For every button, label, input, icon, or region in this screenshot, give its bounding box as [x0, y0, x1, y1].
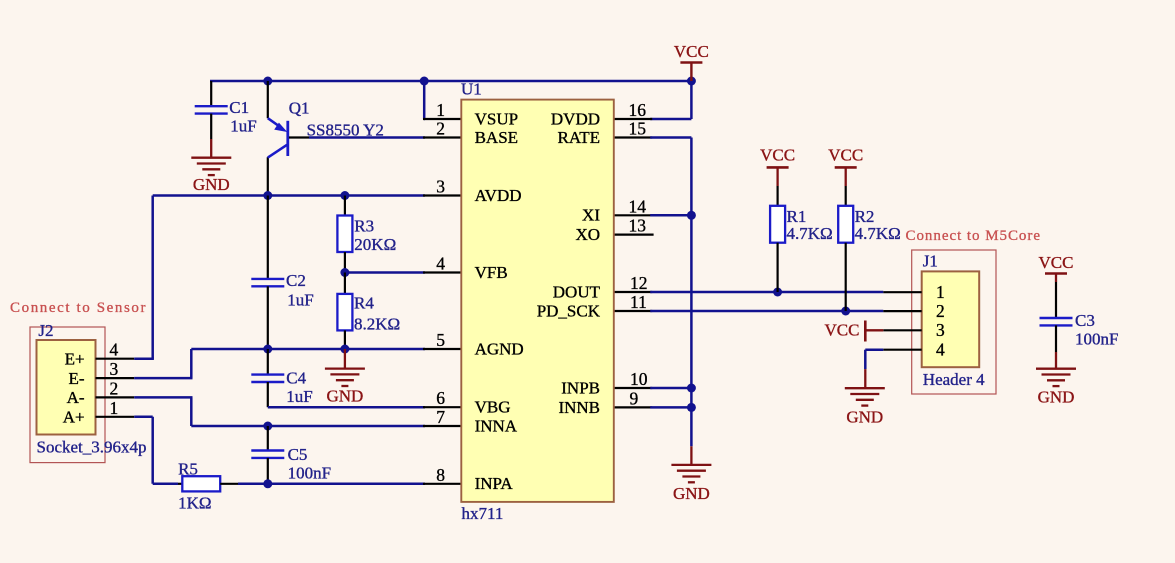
svg-text:15: 15	[629, 119, 647, 139]
pin 4 VFB stub	[423, 254, 461, 274]
svg-text:Socket_3.96x4p: Socket_3.96x4p	[37, 438, 147, 457]
svg-text:C1: C1	[229, 98, 249, 117]
svg-text:hx711: hx711	[462, 504, 504, 523]
wire VFB net row	[345, 271, 425, 274]
power VCC above R2	[828, 146, 863, 187]
pin 10 INPB stub	[614, 369, 652, 389]
svg-text:5: 5	[436, 330, 445, 350]
svg-text:13: 13	[629, 216, 647, 236]
svg-text:1uF: 1uF	[230, 117, 256, 136]
wire INNB to rail	[650, 406, 691, 409]
power VCC (top, net VSUP)	[674, 42, 709, 81]
svg-text:VSUP: VSUP	[475, 109, 518, 128]
svg-text:Q1: Q1	[289, 99, 310, 118]
node junction R3/R4 on VFB	[340, 268, 349, 277]
wire J2 pin4 E+ to AVDD	[134, 357, 154, 360]
svg-text:INNA: INNA	[475, 416, 518, 435]
svg-text:14: 14	[629, 196, 647, 216]
svg-text:GND: GND	[1038, 387, 1075, 406]
svg-text:PD_SCK: PD_SCK	[537, 301, 601, 320]
svg-text:12: 12	[630, 273, 648, 293]
svg-text:C5: C5	[288, 445, 308, 464]
svg-text:C2: C2	[286, 271, 306, 290]
capacitor C5 100nF	[251, 426, 331, 484]
svg-text:11: 11	[630, 292, 647, 312]
wire J2 pin1 A+ to R5	[134, 417, 153, 484]
pin 12 DOUT stub	[614, 273, 652, 293]
wire XI to rail	[650, 214, 691, 217]
transistor Q1 SS8550 (PNP)	[268, 81, 384, 196]
resistor R3 20K	[337, 196, 396, 273]
svg-text:6: 6	[436, 388, 445, 408]
svg-text:4: 4	[436, 254, 445, 274]
resistor R2 4.7K	[838, 186, 901, 311]
node junction Q1 collector / C2 on AVDD	[263, 191, 272, 200]
pin 8 INPA stub	[423, 465, 461, 485]
note Connect to M5Core	[906, 228, 1041, 244]
svg-text:GND: GND	[846, 407, 883, 426]
node junction XI on rail	[687, 211, 696, 220]
svg-text:8: 8	[436, 465, 445, 485]
wire PD_SCK net to J1 pin2	[650, 310, 883, 313]
pin 6 VBG stub	[423, 388, 461, 408]
svg-text:2: 2	[436, 119, 445, 139]
svg-text:4: 4	[110, 340, 119, 360]
power VCC at J1 pin3	[825, 321, 884, 342]
svg-text:GND: GND	[326, 387, 363, 406]
pin 13 XO stub (unconnected)	[614, 216, 654, 236]
wire J2 pin3 E- to AGND	[134, 377, 192, 380]
svg-text:XO: XO	[575, 225, 600, 244]
svg-text:VBG: VBG	[475, 398, 511, 417]
wire J1 pin4 to GND	[865, 350, 883, 369]
pin 11 PD_SCK stub	[614, 292, 652, 312]
svg-text:E-: E-	[69, 369, 85, 388]
capacitor C1 1uF	[195, 81, 257, 158]
pin 3 AVDD stub	[423, 177, 461, 197]
connector J1 Header 4	[883, 252, 985, 389]
wire AVDD net row	[153, 196, 425, 359]
svg-text:3: 3	[110, 359, 119, 379]
svg-text:XI: XI	[582, 206, 600, 225]
svg-text:R4: R4	[354, 294, 374, 313]
svg-text:VCC: VCC	[674, 42, 709, 61]
svg-text:VCC: VCC	[828, 146, 863, 165]
svg-text:8.2KΩ: 8.2KΩ	[354, 315, 400, 334]
svg-text:2: 2	[110, 378, 119, 398]
svg-text:Header 4: Header 4	[923, 370, 985, 389]
wire INPB to rail	[650, 387, 691, 390]
node junction INPB on rail	[687, 384, 696, 393]
svg-text:AVDD: AVDD	[475, 186, 522, 205]
svg-text:A-: A-	[67, 388, 85, 407]
wire VSUP pin1 drop	[423, 81, 426, 119]
wire DOUT net to J1 pin1	[650, 291, 883, 294]
svg-text:VFB: VFB	[475, 263, 508, 282]
svg-text:1uF: 1uF	[286, 387, 312, 406]
svg-text:7: 7	[436, 407, 445, 427]
node junction R4 bottom on AGND	[340, 345, 349, 354]
svg-text:9: 9	[630, 388, 639, 408]
svg-text:BASE: BASE	[475, 128, 518, 147]
svg-text:A+: A+	[63, 408, 85, 427]
capacitor C2 1uF	[251, 196, 313, 350]
svg-text:4.7KΩ: 4.7KΩ	[787, 224, 833, 243]
svg-text:AGND: AGND	[475, 339, 524, 358]
svg-text:U1: U1	[461, 80, 482, 99]
svg-text:J1: J1	[923, 252, 938, 271]
svg-text:100nF: 100nF	[1075, 330, 1118, 349]
svg-text:DOUT: DOUT	[553, 282, 601, 301]
svg-text:VCC: VCC	[825, 321, 860, 340]
svg-text:VCC: VCC	[760, 146, 795, 165]
resistor R4 8.2K	[337, 273, 400, 350]
wire BASE net	[309, 136, 425, 139]
svg-text:1KΩ: 1KΩ	[178, 494, 211, 513]
ground GND under C1	[191, 158, 231, 194]
svg-text:1: 1	[436, 100, 445, 120]
pin 7 INNA stub	[423, 407, 461, 427]
node junction R2 bottom on PD_SCK	[841, 307, 850, 316]
wire VBG net row	[268, 406, 425, 409]
resistor R1 4.7K	[770, 186, 833, 292]
svg-text:J2: J2	[38, 321, 53, 340]
pin 1 VSUP stub	[423, 100, 461, 120]
node junction C5 bottom on INPA	[263, 479, 272, 488]
svg-text:3: 3	[436, 177, 445, 197]
svg-text:1: 1	[110, 398, 119, 418]
node junction R3 top on AVDD	[340, 191, 349, 200]
svg-text:4: 4	[936, 340, 945, 360]
wire R5 to INPA pin	[238, 483, 425, 486]
ground GND under J1 pin4	[845, 369, 885, 426]
wire INPA net row (via R5)	[153, 483, 178, 486]
svg-text:1uF: 1uF	[287, 290, 313, 309]
connector J2 Socket_3.96x4p	[37, 321, 147, 457]
svg-text:3: 3	[936, 320, 945, 340]
svg-text:GND: GND	[673, 484, 710, 503]
wire RATE to GND rail	[650, 138, 691, 447]
ground GND at rail bottom	[671, 446, 711, 503]
connector J1 outline box	[912, 250, 996, 394]
node junction INNB on rail	[687, 403, 696, 412]
svg-text:4.7KΩ: 4.7KΩ	[855, 224, 901, 243]
svg-text:INPA: INPA	[475, 474, 514, 493]
note Connect to Sensor	[10, 300, 146, 316]
svg-text:16: 16	[629, 100, 647, 120]
svg-text:10: 10	[630, 369, 648, 389]
pin 15 RATE stub	[614, 119, 652, 139]
op-amp / IC U1 hx711 body	[461, 80, 614, 523]
svg-text:INNB: INNB	[558, 398, 600, 417]
ground GND under R4	[325, 349, 365, 406]
svg-text:DVDD: DVDD	[551, 109, 600, 128]
node junction R1 bottom on DOUT	[773, 288, 782, 297]
node junction VSUP drop on top rail	[420, 77, 429, 86]
svg-text:2: 2	[936, 301, 945, 321]
svg-text:20KΩ: 20KΩ	[354, 235, 396, 254]
svg-text:INPB: INPB	[561, 378, 600, 397]
node junction Q1 emitter on top rail	[263, 77, 272, 86]
node junction C4 top on AGND	[263, 345, 272, 354]
svg-text:Connect to M5Core: Connect to M5Core	[906, 228, 1041, 244]
svg-text:R3: R3	[354, 217, 374, 236]
svg-text:RATE: RATE	[558, 128, 601, 147]
pin 9 INNB stub	[614, 388, 652, 408]
svg-text:E+: E+	[65, 350, 85, 369]
svg-text:C3: C3	[1075, 311, 1095, 330]
svg-text:100nF: 100nF	[288, 464, 331, 483]
node junction C5 top on INNA	[263, 422, 272, 431]
wire INNA net row	[191, 397, 425, 426]
power VCC above C3	[1039, 253, 1074, 282]
node junction VCC stem on top rail	[687, 77, 696, 86]
svg-text:VCC: VCC	[1039, 253, 1074, 272]
wire AGND net row	[191, 349, 425, 378]
pin 5 AGND stub	[423, 330, 461, 350]
svg-text:Connect to Sensor: Connect to Sensor	[10, 300, 146, 316]
wire J2 pin2 A- to INNA	[134, 396, 192, 399]
pin 2 BASE stub	[423, 119, 461, 139]
pin 16 DVDD stub	[614, 100, 652, 120]
svg-text:1: 1	[936, 282, 945, 302]
power VCC above R1	[760, 146, 795, 187]
capacitor C4 1uF	[251, 349, 312, 407]
svg-text:GND: GND	[193, 175, 230, 194]
resistor R5 1K	[178, 459, 238, 512]
capacitor C3 100nF	[1040, 282, 1119, 369]
wire DVDD to VCC	[650, 81, 691, 119]
connector J2 outline box	[30, 327, 105, 463]
ground GND under C3	[1036, 369, 1076, 407]
svg-text:C4: C4	[286, 369, 306, 388]
svg-text:R5: R5	[178, 459, 198, 478]
wire VCC top rail	[210, 80, 693, 83]
pin 14 XI stub	[614, 196, 652, 216]
